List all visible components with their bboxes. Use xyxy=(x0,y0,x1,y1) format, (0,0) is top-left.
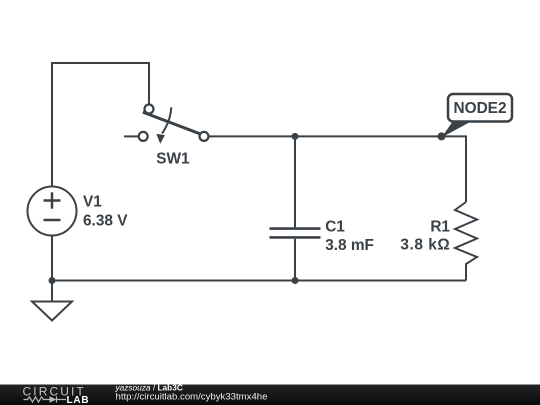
svg-text:LAB: LAB xyxy=(67,395,90,405)
svg-text:C1: C1 xyxy=(325,218,345,235)
svg-text:6.38 V: 6.38 V xyxy=(83,212,128,229)
svg-text:3.8 kΩ: 3.8 kΩ xyxy=(400,237,450,254)
svg-text:3.8 mF: 3.8 mF xyxy=(325,237,374,254)
svg-text:NODE2: NODE2 xyxy=(453,100,506,117)
svg-text:V1: V1 xyxy=(83,193,102,210)
svg-text:R1: R1 xyxy=(430,218,450,235)
svg-text:http://circuitlab.com/cybyk33t: http://circuitlab.com/cybyk33tmx4he xyxy=(116,391,268,402)
svg-text:SW1: SW1 xyxy=(156,150,190,167)
